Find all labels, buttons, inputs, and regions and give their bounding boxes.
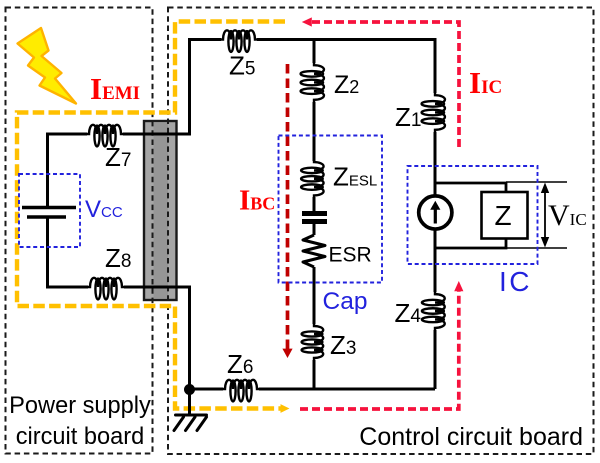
connector block between boards [144,121,177,300]
svg-text:Z: Z [495,200,512,231]
wire: Z4 to bottom rail [434,330,437,389]
wire: IC top link [435,183,506,192]
svg-text:Z1: Z1 [395,102,421,132]
inductor Z7 [87,125,123,147]
red arrowhead left [302,17,312,26]
wire: ESR to Z3 [313,267,316,324]
ground [174,393,207,431]
bypass-cap current path IBC (dark red dashed, arrow down) [286,64,290,349]
capacitor Vcc (plates) [22,208,76,218]
wire: right branch top [434,38,437,93]
svg-text:ESR: ESR [329,244,372,267]
wire: middle branch top [313,38,316,63]
lightning bolt [18,28,77,104]
wire: bottom rail right of Z6 [259,388,435,391]
IC current loop top (red dashed, arrow left) [311,22,459,147]
wire: ZESL to capacitor [313,197,316,211]
svg-text:Z2: Z2 [334,71,359,99]
inductor Z2 [301,63,324,102]
impedance Z box [482,192,528,239]
red arrowhead up [454,281,463,291]
svg-text:Z6: Z6 [227,349,253,379]
resistor ESR [303,235,325,267]
wire: cap bottom to Z8 rail [48,217,89,287]
wire: current source to Z4 [434,231,437,293]
wire: bottom rail to Z6 [190,388,224,391]
inductor Z4 [422,292,445,330]
svg-text:Z3: Z3 [330,330,356,360]
inductor Z1 [422,93,445,132]
svg-text:Z8: Z8 [105,243,131,273]
VIC arrowheads [541,183,549,194]
IC box (blue dashed) [408,166,538,264]
node (junction dot) [184,384,195,395]
wire: Z8 rail through connector [124,286,191,289]
svg-text:IBC: IBC [239,185,275,217]
Vcc box (blue dashed) [19,174,80,247]
svg-text:VCC: VCC [85,196,123,223]
wire: capacitor to ESR [313,224,316,235]
yellow arrowhead [281,404,290,413]
svg-text:Z4: Z4 [395,298,422,328]
IC current loop bottom (red dashed, arrow up) [300,291,459,409]
capacitor in Cap box (plates) [302,214,327,222]
wire: Z3 to bottom rail [313,360,316,389]
inductor Z5 [221,30,257,52]
svg-text:circuit board: circuit board [16,424,145,450]
svg-text:IEMI: IEMI [90,71,140,106]
svg-text:ZESL: ZESL [333,162,377,192]
control circuit board (dashed border) [168,8,594,455]
svg-text:Control circuit board: Control circuit board [359,423,583,451]
current source (circle with up arrow) [419,196,452,229]
inductor Z6 [223,380,259,402]
svg-text:IC: IC [499,266,532,297]
inductor ZESL [301,160,324,198]
wire: top rail right of Z5 [257,38,435,41]
wire: top rail of control board [190,40,222,135]
wire: Z7 rail [48,134,88,207]
svg-text:Cap: Cap [323,288,368,315]
wire: IC bottom link [435,239,506,249]
dark red arrowhead down [282,349,292,358]
wire: Z1 to current source [434,132,437,198]
svg-text:Z5: Z5 [229,51,255,81]
Cap box (blue dashed) [279,136,383,283]
VIC measurement lines [506,182,567,248]
wire: Z7 rail to connector [123,133,191,136]
svg-text:VIC: VIC [548,199,587,232]
wire: down to ground node [188,286,191,390]
inductor Z8 [88,278,124,300]
wire: Z2 to ZESL [313,102,316,161]
svg-text:Power supply: Power supply [9,393,151,419]
inductor Z3 [302,324,324,360]
svg-text:Z7: Z7 [105,142,131,172]
power supply circuit board (dashed border) [6,8,153,454]
svg-text:IIC: IIC [469,65,502,100]
EMI current loop (yellow dashed path) [17,22,285,409]
